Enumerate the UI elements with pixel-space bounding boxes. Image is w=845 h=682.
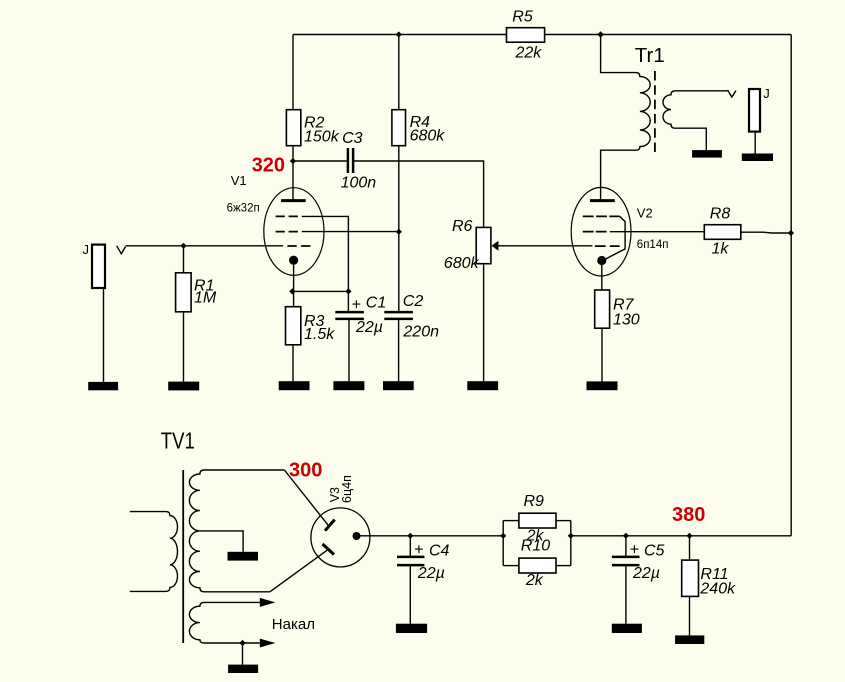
- tube V3 anode top bar: [325, 520, 335, 531]
- svg-text:680k: 680k: [444, 255, 480, 272]
- transformer Tr1 primary winding: [601, 35, 651, 201]
- transformer Tr1 core: [654, 71, 656, 152]
- node junction top R4: [396, 31, 402, 37]
- wire R6 to ground: [483, 264, 485, 382]
- capacitor C4: [397, 541, 450, 582]
- ground C5: [612, 624, 642, 633]
- svg-text:V1: V1: [231, 173, 247, 188]
- svg-text:C1: C1: [366, 295, 386, 312]
- svg-text:22k: 22k: [515, 45, 543, 62]
- transformer TV1 mains winding: [130, 512, 178, 592]
- tube V1 anode plate: [281, 199, 306, 202]
- wire B+ bottom rail: [571, 535, 791, 537]
- node junction C5: [623, 533, 629, 539]
- ground J output: [742, 154, 773, 162]
- tube V2 grid g3 dashes: [583, 215, 620, 217]
- svg-text:1k: 1k: [712, 240, 730, 257]
- svg-text:+: +: [414, 541, 423, 558]
- wire TV1 center tap: [200, 531, 243, 552]
- ground R11: [675, 635, 704, 644]
- svg-text:150k: 150k: [304, 129, 340, 146]
- svg-text:240k: 240k: [699, 581, 736, 598]
- wire R10 left stub: [503, 565, 519, 567]
- capacitor C3: [341, 130, 377, 191]
- node junction R1: [180, 243, 186, 249]
- R6 wiper arrow: [492, 241, 499, 251]
- wire C1 to ground: [348, 319, 350, 381]
- svg-text:J: J: [83, 242, 90, 257]
- ground filament: [228, 665, 258, 673]
- ground TV1 tap: [228, 552, 259, 561]
- node junction R9 left: [500, 533, 506, 539]
- svg-text:R8: R8: [710, 206, 731, 223]
- node junction R9 right: [568, 533, 574, 539]
- tube V2 cathode dot: [597, 256, 606, 265]
- tube V1 cathode dot: [289, 256, 298, 265]
- ground R3: [279, 381, 310, 390]
- wire J input stem: [103, 288, 105, 382]
- wire filament to ground: [242, 643, 244, 665]
- wire R9 left stub: [503, 520, 519, 522]
- wire R2 to V1 anode: [292, 146, 294, 200]
- svg-text:22µ: 22µ: [417, 565, 445, 582]
- svg-text:6ц4п: 6ц4п: [340, 475, 354, 503]
- wire R1 to ground: [183, 312, 185, 382]
- transformer TV1 filament winding: [189, 602, 259, 643]
- svg-text:Tr1: Tr1: [635, 44, 665, 67]
- wire R9/R10 right vertical: [570, 521, 572, 566]
- node junction R11: [686, 533, 692, 539]
- svg-text:R5: R5: [512, 9, 533, 26]
- wire R4 down to C2: [398, 146, 400, 312]
- node junction cathode R3: [289, 288, 295, 294]
- arrow filament bottom: [260, 639, 276, 648]
- wire R11 stem: [689, 536, 691, 560]
- node 320 junction: [290, 158, 296, 164]
- wire V1 cathode down: [293, 260, 295, 307]
- svg-text:100n: 100n: [341, 175, 377, 192]
- node junction filament: [239, 640, 245, 646]
- wire V1 g2 to R4 junction: [302, 231, 399, 233]
- resistor R2: [286, 110, 339, 146]
- wire V2 cathode down: [601, 261, 603, 291]
- svg-text:2k: 2k: [525, 572, 544, 589]
- svg-text:Накал: Накал: [272, 616, 315, 633]
- wire R8 to right rail: [741, 231, 791, 234]
- tube V3 cathode dot: [353, 532, 361, 540]
- ground J input: [88, 382, 118, 390]
- wire C4 to ground: [409, 565, 411, 624]
- svg-text:TV1: TV1: [161, 427, 195, 453]
- node junction C4: [407, 533, 413, 539]
- wire top rail left segment: [293, 34, 507, 36]
- wire input to V1 grid: [126, 245, 284, 247]
- svg-text:1.5k: 1.5k: [304, 326, 335, 343]
- svg-text:22µ: 22µ: [632, 565, 660, 582]
- ground R6: [467, 381, 498, 390]
- svg-text:+: +: [352, 297, 361, 314]
- wire J output stem: [754, 132, 756, 154]
- resistor R8: [704, 206, 741, 258]
- wire C4 stem: [409, 536, 411, 557]
- svg-text:6п14п: 6п14п: [637, 239, 669, 251]
- wire R9 right stub: [556, 520, 571, 522]
- wire R2 stem from rail: [292, 35, 294, 110]
- tube V3 anode bottom bar: [323, 544, 335, 555]
- resistor R4: [392, 110, 445, 146]
- resistor R3: [286, 307, 336, 345]
- transformer Tr1 secondary winding: [663, 91, 729, 128]
- connector J output: [749, 86, 770, 132]
- wire HV top diagonal to V3: [284, 470, 329, 526]
- arrow filament top: [260, 598, 276, 607]
- output V mark: [728, 90, 736, 97]
- resistor R5: [507, 9, 545, 62]
- wire R10 right stub: [556, 565, 571, 567]
- svg-text:320: 320: [252, 155, 285, 177]
- tube V3 envelope: [311, 508, 370, 567]
- svg-text:380: 380: [672, 504, 705, 526]
- tube V1 grid g1 dashes: [287, 245, 311, 247]
- wire C1 stem: [347, 291, 349, 312]
- wire R4 stem from rail: [398, 35, 400, 110]
- tube V2 grid g1 dashes: [595, 245, 620, 247]
- wire V2 g3 to cathode: [602, 216, 625, 260]
- svg-text:C4: C4: [429, 543, 450, 560]
- ground C4: [396, 624, 427, 633]
- input V mark: [117, 246, 126, 254]
- resistor R11: [682, 560, 736, 597]
- svg-text:+: +: [630, 541, 639, 558]
- wire R6 wiper to V2 grid: [498, 245, 592, 247]
- svg-text:680k: 680k: [410, 128, 446, 145]
- tube V2 grid g2 dashes: [583, 231, 607, 233]
- svg-text:V2: V2: [637, 206, 653, 221]
- ground C2: [383, 381, 414, 390]
- capacitor C5: [612, 541, 665, 582]
- wire C5 stem: [625, 536, 627, 557]
- wire V1 g3 to cathode node: [302, 216, 349, 291]
- svg-text:C5: C5: [644, 543, 665, 560]
- ground R1: [168, 382, 199, 391]
- wire V2 g2 to R8: [610, 231, 705, 233]
- tube V1 envelope: [264, 188, 324, 276]
- node junction R8 rail: [788, 230, 794, 236]
- svg-text:C3: C3: [342, 130, 363, 147]
- transformer TV1 HV winding: [189, 470, 284, 592]
- svg-text:130: 130: [613, 311, 640, 328]
- tube V2 envelope: [571, 187, 631, 276]
- resistor R9: [519, 493, 556, 544]
- connector J input: [83, 242, 106, 288]
- tube V1 grid g2 dashes: [276, 231, 299, 233]
- svg-text:6ж32п: 6ж32п: [227, 202, 260, 214]
- wire Tr1 secondary bottom lead: [675, 128, 706, 150]
- wire cathode node to C1: [292, 290, 348, 292]
- wire C5 to ground: [625, 565, 627, 624]
- ground R7: [587, 381, 618, 390]
- tube V2 anode plate: [590, 199, 615, 202]
- wire right rail vertical: [790, 35, 792, 536]
- svg-text:300: 300: [289, 460, 322, 482]
- resistor R7: [595, 290, 640, 328]
- wire C3 to R6 top: [353, 161, 484, 227]
- ground Tr1 secondary: [692, 150, 722, 158]
- node junction cathode C1: [345, 288, 351, 294]
- wire R3 to ground: [292, 345, 294, 381]
- capacitor C1: [335, 295, 386, 336]
- svg-text:C2: C2: [403, 293, 424, 310]
- svg-text:1M: 1M: [194, 290, 217, 307]
- node junction top Tr1: [597, 31, 603, 37]
- wire R11 to ground: [689, 596, 691, 635]
- tube V1 grid g3 dashes: [276, 215, 299, 217]
- wire R1 stem: [183, 246, 185, 273]
- wire HV bottom diagonal to V3: [270, 550, 328, 592]
- svg-text:J: J: [763, 86, 770, 101]
- capacitor C2: [384, 293, 439, 340]
- wire node320 to C3: [293, 160, 348, 162]
- node junction R4 / V1 g2: [396, 229, 402, 235]
- resistor R1: [176, 273, 217, 312]
- resistor R6 potentiometer: [444, 218, 491, 272]
- resistor R10: [519, 538, 556, 590]
- wire C2 to ground: [398, 319, 400, 381]
- wire V3 cathode to C4 node: [357, 535, 504, 537]
- svg-text:22µ: 22µ: [355, 319, 383, 336]
- svg-text:R9: R9: [524, 493, 545, 510]
- svg-text:220n: 220n: [402, 323, 439, 340]
- svg-text:R10: R10: [521, 538, 550, 555]
- svg-text:R6: R6: [452, 218, 473, 235]
- ground C1: [333, 381, 364, 390]
- wire R7 to ground: [601, 328, 603, 381]
- transformer TV1 core: [182, 470, 184, 643]
- wire top rail right segment: [545, 34, 792, 36]
- wire R9/R10 left vertical: [502, 521, 504, 566]
